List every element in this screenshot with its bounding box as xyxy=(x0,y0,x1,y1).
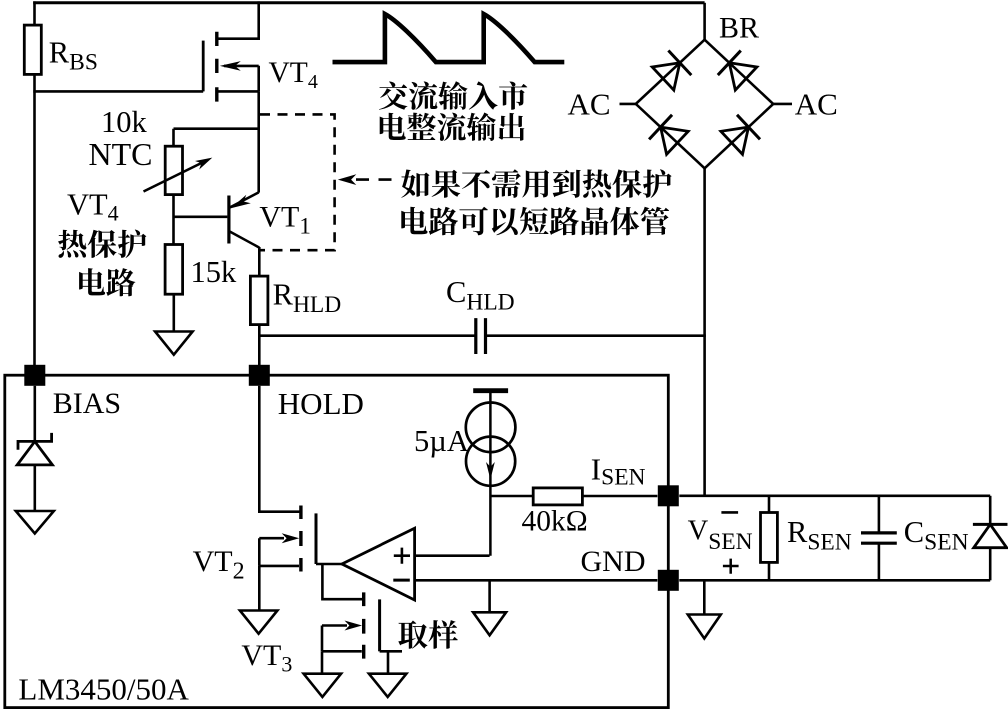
wire bridge top xyxy=(703,3,706,41)
label 热保护 xyxy=(58,230,146,259)
wire NTC bottom xyxy=(172,195,175,246)
resistor RBS xyxy=(24,25,41,74)
label note line2 电路可以短路晶体管 xyxy=(401,207,669,236)
diode bridge upper-right xyxy=(705,40,774,104)
label VSEN minus xyxy=(721,511,738,514)
wire top power rail xyxy=(33,1,704,4)
label note line1 如果不需用到热保护 xyxy=(401,169,671,198)
wire sampling source to ground xyxy=(321,651,324,673)
svg-text:LM3450/50A: LM3450/50A xyxy=(18,672,189,707)
node ISEN square xyxy=(658,485,679,506)
wire RHLD to HOLD xyxy=(258,325,261,366)
op-amp plus sign xyxy=(394,548,410,564)
wire right edge bottom xyxy=(989,548,992,581)
svg-text:BR: BR xyxy=(719,12,759,45)
transistor sampling channel bar xyxy=(362,592,365,658)
waveform rectified AC xyxy=(335,14,562,62)
svg-text:BIAS: BIAS xyxy=(53,387,121,420)
ground below minus wire xyxy=(488,580,491,612)
svg-text:5µA: 5µA xyxy=(414,424,469,458)
svg-text:AC: AC xyxy=(568,87,611,122)
wire opamp plus input xyxy=(415,554,490,557)
wire VT2 gate to opamp xyxy=(316,563,344,566)
wire VT1 base feed xyxy=(174,216,228,219)
wire BIAS down xyxy=(33,386,36,441)
svg-text:GND: GND xyxy=(581,545,646,578)
resistor 15k xyxy=(165,245,183,295)
thermistor arrow xyxy=(144,161,207,192)
label 取样 xyxy=(398,620,458,649)
wire GND rail xyxy=(679,579,990,582)
op-amp minus sign xyxy=(393,579,410,582)
svg-text:AC: AC xyxy=(795,87,838,122)
op-amp U1 body xyxy=(342,528,415,600)
wire opamp minus input gnd xyxy=(415,579,658,582)
diode bridge upper-left xyxy=(636,40,705,104)
transistor VT1 collector diag xyxy=(230,231,260,247)
svg-text:HOLD: HOLD xyxy=(278,386,364,421)
label VSEN plus xyxy=(723,559,739,574)
node HOLD square xyxy=(249,365,270,386)
wire CHLD right xyxy=(485,334,706,337)
capacitor CHLD plates xyxy=(476,318,486,354)
transistor VT4 arrowhead xyxy=(220,61,241,71)
transistor VT2 source xyxy=(259,538,299,566)
svg-text:10k: 10k xyxy=(101,105,148,139)
ground below sampling gate xyxy=(369,674,407,697)
capacitor CSEN plates xyxy=(861,533,897,543)
transistor VT2 gate bar xyxy=(315,513,318,564)
wire AC stub right xyxy=(773,103,793,106)
transistor VT4 channel bar xyxy=(215,32,218,102)
current source supply bar xyxy=(473,388,508,393)
label 电路 xyxy=(79,268,135,296)
ground below 15k xyxy=(155,332,193,355)
wire 40k left xyxy=(490,495,533,498)
svg-text:15k: 15k xyxy=(191,255,238,289)
wire opamp output branch xyxy=(322,564,363,599)
transistor VT2 body arrow xyxy=(259,537,284,540)
wire VT1 collector down xyxy=(258,247,261,276)
wire RSEN bottom xyxy=(768,562,771,580)
wire CSEN top xyxy=(878,496,881,532)
dashed arrow annotation xyxy=(338,174,357,185)
wire AC stub left xyxy=(620,103,637,106)
wire bridge bottom down xyxy=(703,168,706,496)
wire 15k to ground xyxy=(173,294,176,331)
wire HOLD down xyxy=(259,386,300,512)
wire CSEN bottom xyxy=(878,544,881,581)
wire left rail xyxy=(33,1,36,365)
resistor RHLD xyxy=(250,276,268,325)
transistor VT4 source xyxy=(217,66,259,92)
diode bridge lower-left xyxy=(636,104,705,168)
transistor sampling source xyxy=(322,626,362,652)
current source circle top xyxy=(466,403,516,453)
wire RSEN top xyxy=(768,496,771,513)
box LM3450/50A outline xyxy=(5,375,669,707)
ground below VT2 xyxy=(240,611,278,634)
resistor RSEN xyxy=(761,513,778,563)
transistor sampling gate bar xyxy=(378,599,381,651)
wire VT2 source to ground xyxy=(258,566,261,611)
wire 40k right xyxy=(582,495,657,498)
wire VT4 gate feed xyxy=(33,90,203,93)
transistor sampling body arrow xyxy=(322,624,347,627)
wire zener to ground xyxy=(33,465,36,511)
current source circle bottom xyxy=(466,437,515,486)
transistor VT4 gate bar xyxy=(202,41,205,92)
current source arrow xyxy=(489,392,492,556)
node BIAS square xyxy=(24,365,45,386)
wire right edge top xyxy=(989,496,992,525)
diode right edge xyxy=(973,523,1008,526)
wire CHLD left xyxy=(259,334,475,337)
wire VT4 source down xyxy=(257,91,260,192)
ground below bridge column xyxy=(703,580,706,614)
label waveform line2 电整流输出 xyxy=(380,113,525,142)
resistor 40k xyxy=(533,488,582,505)
transistor VT1 emitter arrowhead xyxy=(231,195,251,209)
ground below sampling source xyxy=(304,674,342,697)
node GND square xyxy=(658,570,679,591)
transistor VT4 drain xyxy=(217,1,259,38)
wire NTC top xyxy=(174,129,259,147)
transistor VT2 channel bar xyxy=(299,506,302,572)
svg-text:NTC: NTC xyxy=(89,136,153,172)
ground below zener xyxy=(16,511,54,534)
diode bridge lower-right xyxy=(705,104,774,168)
dashed box around VT1 xyxy=(260,114,335,250)
svg-text:40kΩ: 40kΩ xyxy=(522,506,588,538)
diode zener below BIAS xyxy=(18,433,52,450)
resistor NTC 10k xyxy=(165,146,182,194)
transistor VT1 emitter diag xyxy=(230,192,259,207)
label waveform line1 交流输入市 xyxy=(379,81,527,110)
wire ISEN rail xyxy=(679,494,990,497)
transistor VT4 body arrow xyxy=(224,65,259,68)
transistor VT1 base bar xyxy=(227,196,230,244)
wire sampling gate to ground xyxy=(380,651,402,673)
